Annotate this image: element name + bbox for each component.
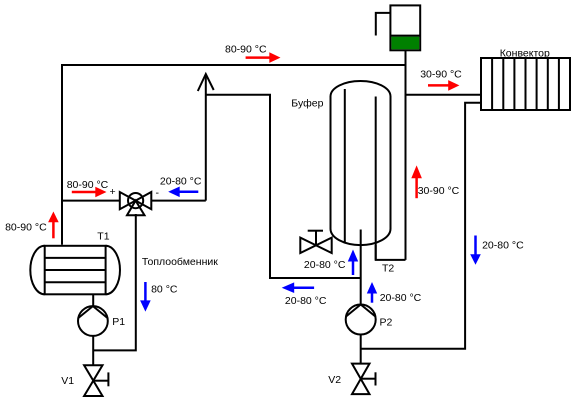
svg-text:30-90 °C: 30-90 °C xyxy=(418,185,460,197)
blue flow arrow left bottom return xyxy=(282,282,314,293)
svg-text:20-80 °C: 20-80 °C xyxy=(285,295,327,307)
svg-text:80 °C: 80 °C xyxy=(151,283,178,295)
red flow arrow top 80-90 xyxy=(246,52,281,63)
svg-text:80-90 °C: 80-90 °C xyxy=(67,179,109,191)
blue flow arrow down 80C xyxy=(140,282,151,312)
blue flow arrow down convector return xyxy=(470,236,481,265)
buffer inner pipe 1 xyxy=(344,89,346,242)
svg-text:Буфер: Буфер xyxy=(291,97,323,109)
wire return header horizontal xyxy=(206,95,361,278)
svg-text:V2: V2 xyxy=(328,374,341,386)
buffer drain valve xyxy=(300,231,331,253)
wire top supply pipe xyxy=(62,65,406,245)
wire convector return elbow xyxy=(361,103,481,349)
svg-text:T1: T1 xyxy=(97,230,109,242)
svg-text:+: + xyxy=(110,186,116,198)
buffer inner pipe 2 xyxy=(375,97,377,260)
valve V1 xyxy=(84,365,108,396)
red flow arrow up T1 supply xyxy=(48,212,59,239)
blue flow arrow 20-80 into mixing valve xyxy=(168,187,198,198)
wire mixing valve right branch xyxy=(151,200,206,202)
pump P2 xyxy=(346,305,376,335)
wire bypass riser xyxy=(205,76,207,201)
wire convector supply xyxy=(406,94,482,96)
expansion vessel xyxy=(390,5,420,50)
buffer tank xyxy=(331,81,391,245)
svg-text:Топлообменник: Топлообменник xyxy=(142,256,218,268)
svg-text:20-80 °C: 20-80 °C xyxy=(160,176,202,188)
wire U-bend under buffer xyxy=(376,245,406,260)
blue flow arrow up near drain xyxy=(348,250,358,276)
svg-text:80-90 °C: 80-90 °C xyxy=(5,221,47,233)
svg-text:-: - xyxy=(156,187,160,199)
valve V2 xyxy=(352,364,376,395)
wire riser from expansion vessel down to U-bend xyxy=(405,50,407,260)
red flow arrow to convector xyxy=(428,80,459,91)
svg-text:Конвектор: Конвектор xyxy=(500,48,550,60)
red flow arrow up riser 30-90 xyxy=(411,165,422,198)
svg-text:30-90 °C: 30-90 °C xyxy=(420,69,462,81)
svg-text:20-80 °C: 20-80 °C xyxy=(380,292,422,304)
svg-text:T2: T2 xyxy=(382,263,394,275)
svg-text:20-80 °C: 20-80 °C xyxy=(304,259,346,271)
wire mixing valve bottom stem to pump suction xyxy=(93,214,136,350)
wire mixing valve left branch xyxy=(62,200,120,202)
blue flow arrow up into P2 xyxy=(367,282,377,303)
flow arrowhead on bypass riser xyxy=(198,74,214,91)
heat exchanger T1 xyxy=(30,246,120,294)
three-way mixing valve xyxy=(120,192,152,215)
svg-text:80-90 °C: 80-90 °C xyxy=(225,44,267,56)
red flow arrow before mixing valve xyxy=(72,187,107,198)
convector xyxy=(481,58,570,110)
svg-text:20-80 °C: 20-80 °C xyxy=(482,239,524,251)
vent pipe of expansion vessel xyxy=(376,13,391,36)
wire T1 bottom to V1 xyxy=(92,294,94,365)
svg-text:P1: P1 xyxy=(112,316,125,328)
pump P1 xyxy=(78,306,108,336)
wire buffer bottom pipe through P2 to V2 xyxy=(360,230,362,364)
svg-text:V1: V1 xyxy=(61,375,74,387)
svg-text:P2: P2 xyxy=(380,317,393,329)
